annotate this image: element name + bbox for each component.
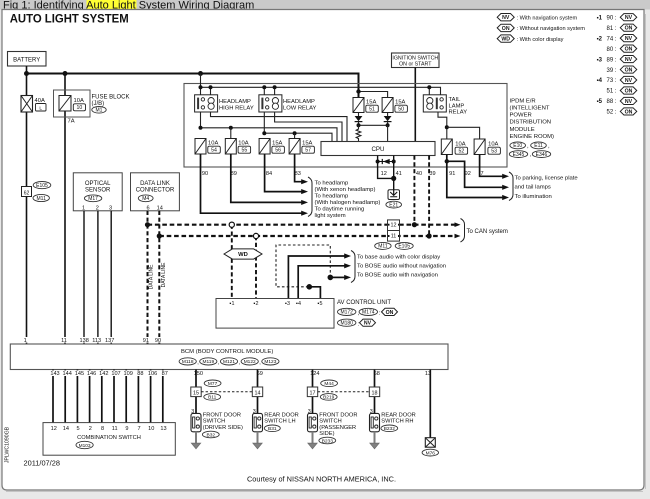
node fuse51 branch — [356, 89, 360, 93]
bracket headlamp outputs — [308, 177, 312, 217]
svg-text:IGNITION SWITCH: IGNITION SWITCH — [392, 55, 438, 61]
wire joining diode outputs — [359, 124, 388, 126]
bracket parking outputs — [509, 172, 513, 201]
battery B+ box — [8, 52, 47, 67]
svg-text:(DRIVER SIDE): (DRIVER SIDE) — [203, 425, 243, 431]
svg-text:▪2: ▪2 — [254, 301, 259, 307]
connector M174 oval — [359, 308, 377, 315]
BCM box — [10, 344, 448, 370]
svg-text:2: 2 — [96, 205, 99, 211]
hexagon ON — [382, 308, 398, 315]
fuse 15A 51 — [353, 98, 364, 113]
svg-text:62: 62 — [24, 190, 30, 196]
svg-text:TAIL: TAIL — [449, 97, 462, 103]
legend NV — [497, 14, 514, 21]
node pin91/92 split — [445, 159, 449, 163]
svg-text:10A: 10A — [238, 141, 248, 147]
wire fuse53 pin7 to parking lamps — [480, 155, 504, 177]
optical sensor box M17 — [73, 173, 122, 211]
relay headlamp high — [195, 95, 218, 112]
fuse 10A 52 — [441, 139, 452, 155]
svg-text:14: 14 — [157, 205, 163, 211]
svg-text:106: 106 — [148, 371, 157, 377]
svg-text:: Without navigation system: : Without navigation system — [517, 26, 586, 32]
connector M119 oval — [200, 358, 217, 365]
svg-text:LOW RELAY: LOW RELAY — [283, 106, 317, 112]
svg-text:SWITCH RH: SWITCH RH — [381, 419, 413, 425]
svg-text:143: 143 — [50, 371, 59, 377]
svg-text:B31: B31 — [268, 426, 277, 432]
svg-text:DATA LINK: DATA LINK — [140, 181, 170, 187]
svg-text:LAMP: LAMP — [449, 103, 465, 109]
wire CAN-L DLC pin14 down to BCM 90 (data line) — [158, 211, 160, 344]
fuse 15A 50 — [382, 98, 393, 113]
svg-text:18: 18 — [372, 390, 378, 396]
svg-text:15A: 15A — [366, 100, 376, 106]
connector E345 oval — [509, 151, 527, 158]
ignition switch box — [392, 53, 440, 68]
pin 68 — [373, 370, 381, 376]
svg-text:M77: M77 — [208, 381, 218, 387]
wire WD branch 1 — [231, 225, 233, 299]
wire CPU pin 39 CAN — [428, 156, 430, 237]
wire BCM to front door switch driver — [195, 370, 197, 414]
connector M76 symbol — [425, 438, 435, 448]
svg-text:56: 56 — [275, 148, 281, 154]
svg-text:FRONT DOOR: FRONT DOOR — [319, 413, 357, 419]
svg-text:M44: M44 — [324, 381, 334, 387]
svg-text:ON: ON — [386, 310, 394, 316]
dashed routing guide — [276, 245, 330, 287]
svg-text:ON: ON — [625, 47, 633, 53]
svg-text:REAR DOOR: REAR DOOR — [264, 413, 298, 419]
svg-text:To daytime running: To daytime running — [315, 207, 365, 213]
node CAN-H at DLC — [145, 222, 150, 227]
connector M1 oval — [92, 107, 106, 114]
svg-text:10A: 10A — [74, 98, 84, 104]
svg-text:146: 146 — [87, 371, 96, 377]
fuse 10A 53 — [474, 139, 485, 155]
svg-text:39: 39 — [429, 171, 435, 177]
fuse block J/B outline M1 — [54, 90, 91, 117]
CPU box — [321, 142, 435, 156]
svg-text:RELAY: RELAY — [449, 110, 468, 116]
svg-text:E105: E105 — [36, 183, 48, 189]
node CAN-L at DLC — [157, 233, 162, 238]
svg-text:To headlamp: To headlamp — [315, 194, 349, 200]
svg-text:13: 13 — [160, 426, 166, 432]
ground rear door switch RH — [374, 432, 376, 444]
svg-text:15A: 15A — [302, 141, 312, 147]
svg-text:81 :: 81 : — [606, 26, 616, 32]
svg-text:8: 8 — [101, 426, 104, 432]
wire BCM to rear door switch RH — [374, 370, 376, 414]
svg-text:113: 113 — [92, 338, 101, 344]
svg-text:10A: 10A — [455, 142, 465, 148]
wire low relay coil out — [275, 112, 342, 142]
connector B232 oval — [381, 425, 398, 432]
svg-text:11: 11 — [112, 426, 118, 432]
WD hexagon — [224, 249, 262, 259]
wire ignition to CPU — [414, 68, 416, 142]
wire CPU pin 40 CAN — [413, 156, 415, 225]
pin 143 — [49, 370, 60, 376]
wire battery down to BCM pin 1 — [26, 74, 28, 345]
wire to BOSE with nav — [330, 276, 345, 278]
svg-text:DISTRIBUTION: DISTRIBUTION — [510, 120, 552, 126]
wire AV pin5 elbow — [309, 287, 320, 299]
svg-text:3: 3 — [109, 205, 112, 211]
connector M122 oval — [241, 358, 258, 365]
pin 106 — [147, 370, 158, 376]
connector E21 oval — [386, 201, 402, 208]
svg-text:WD: WD — [501, 37, 510, 43]
wire CAN-L horizontal bus — [159, 235, 454, 237]
svg-text:ENGINE ROOM): ENGINE ROOM) — [510, 134, 555, 140]
svg-text:FRONT DOOR: FRONT DOOR — [203, 413, 241, 419]
svg-text:OPTICAL: OPTICAL — [85, 181, 111, 187]
svg-text:M11: M11 — [37, 196, 47, 202]
fusible link L symbol — [36, 104, 47, 112]
node fuse57 tap — [293, 131, 297, 135]
svg-text:2011/07/28: 2011/07/28 — [24, 459, 60, 468]
svg-text:To parking, license plate: To parking, license plate — [515, 175, 579, 181]
svg-text:12: 12 — [381, 171, 387, 177]
svg-text:and tail lamps: and tail lamps — [515, 185, 551, 191]
connector B31 oval — [264, 425, 280, 432]
pin 137 — [104, 337, 115, 343]
svg-text:52 :: 52 : — [606, 110, 616, 116]
svg-text:88 :: 88 : — [606, 99, 616, 105]
svg-text:M76: M76 — [426, 450, 436, 456]
svg-text:ON: ON — [502, 26, 510, 32]
connector M44 oval — [321, 380, 338, 387]
svg-text:WD: WD — [238, 252, 248, 258]
svg-text:7A: 7A — [68, 119, 75, 125]
resistor to CPU — [356, 125, 361, 141]
node CAN-H CPU40 — [412, 222, 417, 227]
svg-text:To CAN system: To CAN system — [467, 229, 508, 235]
pin 146 — [86, 370, 97, 376]
pin 138 — [79, 337, 90, 343]
svg-text:B233: B233 — [322, 438, 334, 444]
svg-text:HEADLAMP: HEADLAMP — [219, 99, 251, 105]
connector box 15 — [191, 387, 201, 397]
svg-text:12: 12 — [51, 426, 57, 432]
IPDM E/R outline box — [184, 84, 507, 168]
node BOSE nav junction — [328, 275, 334, 281]
svg-text:2: 2 — [89, 426, 92, 432]
svg-text:41: 41 — [396, 171, 402, 177]
svg-text:15: 15 — [193, 390, 199, 396]
svg-text:9: 9 — [125, 426, 128, 432]
connector M118 oval — [179, 358, 196, 365]
connector M11 oval — [33, 194, 49, 201]
node relay bus junction — [198, 71, 203, 76]
svg-text:M180: M180 — [340, 321, 353, 327]
svg-text:ON or START: ON or START — [399, 62, 432, 68]
hexagon NV — [360, 319, 376, 326]
svg-text:15A: 15A — [272, 141, 282, 147]
fuse 10A 55 — [225, 139, 236, 155]
svg-text:84: 84 — [266, 171, 272, 177]
svg-text:SWITCH: SWITCH — [319, 419, 341, 425]
svg-text:55: 55 — [241, 148, 247, 154]
svg-text:B232: B232 — [384, 426, 396, 432]
connector M123 oval — [262, 358, 279, 365]
connector B32 oval — [202, 431, 219, 438]
wire high relay contact out — [201, 112, 338, 142]
svg-text:92: 92 — [465, 171, 471, 177]
pin 113 — [91, 337, 102, 343]
svg-text:DATA LINE: DATA LINE — [161, 262, 167, 287]
svg-text:(With xenon headlamp): (With xenon headlamp) — [315, 187, 376, 193]
svg-text:SIDE): SIDE) — [319, 431, 334, 437]
svg-text:▪3: ▪3 — [285, 301, 290, 307]
svg-text:NV: NV — [625, 15, 633, 21]
svg-text:M121: M121 — [223, 359, 235, 365]
svg-text:7: 7 — [480, 171, 483, 177]
pin 150 — [193, 370, 204, 376]
svg-text:10: 10 — [148, 426, 154, 432]
svg-text:ON: ON — [625, 109, 633, 115]
connector 62 box on battery wire — [22, 187, 32, 197]
connector B219 oval — [320, 394, 337, 401]
fuse 15A 57 — [289, 139, 300, 155]
svg-text:B11: B11 — [208, 395, 217, 401]
wire CPU pin 41 — [393, 156, 395, 190]
fusible link 40A — [21, 96, 33, 113]
svg-text:5: 5 — [77, 426, 80, 432]
svg-text:HEADLAMP: HEADLAMP — [283, 99, 315, 105]
svg-text:90: 90 — [202, 171, 208, 177]
svg-text:E10: E10 — [513, 143, 522, 149]
svg-text:To BOSE audio without navigati: To BOSE audio without navigation — [357, 263, 446, 269]
pin 90 — [154, 337, 162, 343]
wire WD branch 2 — [255, 236, 257, 299]
pin 144 — [62, 370, 73, 376]
svg-text:M118: M118 — [182, 359, 194, 365]
wire pin 91 illumination — [447, 161, 504, 197]
connector M172 oval — [338, 308, 356, 315]
svg-text:B32: B32 — [207, 432, 216, 438]
svg-text:E346: E346 — [536, 152, 548, 158]
svg-text:80 :: 80 : — [606, 47, 616, 53]
svg-text:12: 12 — [391, 223, 397, 229]
connector M180 oval — [338, 319, 356, 326]
svg-text:E11: E11 — [534, 143, 543, 149]
wire CPU pin 12 — [378, 156, 394, 179]
svg-text:To illumination: To illumination — [515, 194, 552, 200]
wire pin 92 tail lamps — [447, 155, 504, 188]
svg-text:57: 57 — [305, 148, 311, 154]
svg-text:(INTELLIGENT: (INTELLIGENT — [510, 106, 550, 112]
svg-text:AUTO LIGHT SYSTEM: AUTO LIGHT SYSTEM — [10, 12, 129, 26]
svg-text:: With navigation system: : With navigation system — [517, 16, 578, 22]
node CAN-L CPU39 — [427, 233, 432, 238]
svg-text:M11: M11 — [378, 244, 388, 250]
pin 91 — [142, 337, 150, 343]
diode between pins 12 and 41 — [381, 159, 383, 164]
highlight Auto Light — [87, 0, 137, 10]
wire battery to bus — [26, 66, 28, 74]
svg-text:M119: M119 — [202, 359, 214, 365]
connector B11 oval — [204, 394, 221, 401]
svg-text:52: 52 — [458, 149, 464, 155]
svg-text:NV: NV — [502, 15, 510, 21]
svg-text:90: 90 — [155, 338, 161, 344]
svg-text:SWITCH: SWITCH — [203, 419, 225, 425]
node battery junction — [24, 71, 29, 76]
IPDM internal supply bus — [201, 74, 441, 96]
legend ON — [497, 24, 514, 31]
svg-text:74 :: 74 : — [606, 36, 616, 42]
node bus 210.5 — [209, 85, 213, 89]
fuse 10A #10 — [59, 96, 71, 112]
svg-text:COMBINATION SWITCH: COMBINATION SWITCH — [77, 435, 141, 441]
svg-text:Courtesy of NISSAN NORTH AMERI: Courtesy of NISSAN NORTH AMERICA, INC. — [247, 475, 396, 484]
svg-text:E105: E105 — [398, 244, 410, 250]
wire BCM to front door switch passenger — [312, 370, 314, 414]
svg-text:E345: E345 — [513, 152, 525, 158]
svg-text:DATA LINE: DATA LINE — [149, 264, 155, 289]
node bus 274.6 — [273, 85, 277, 89]
svg-text:CONNECTOR: CONNECTOR — [136, 188, 175, 194]
svg-text:40: 40 — [416, 171, 422, 177]
relay tail lamp — [423, 95, 446, 112]
svg-text:: With color display: : With color display — [517, 37, 564, 43]
node fuse10 junction — [63, 71, 68, 76]
svg-text:NV: NV — [364, 321, 372, 327]
diode under fuse 50 — [387, 113, 389, 117]
svg-text:IPDM E/R: IPDM E/R — [510, 98, 536, 104]
bracket CAN — [461, 219, 465, 243]
connector E10 oval — [510, 142, 526, 149]
svg-text:HIGH RELAY: HIGH RELAY — [219, 106, 254, 112]
svg-text:91: 91 — [143, 338, 149, 344]
svg-text:10A: 10A — [488, 142, 498, 148]
wire AV pin3 to base audio — [288, 256, 345, 299]
svg-text:137: 137 — [105, 338, 114, 344]
wire diode50 to CPU — [387, 125, 389, 141]
bracket audio — [351, 251, 355, 283]
dashed link 15-14 — [201, 391, 252, 393]
svg-text:10A: 10A — [208, 141, 218, 147]
svg-text:83: 83 — [295, 171, 301, 177]
svg-text:17: 17 — [310, 390, 316, 396]
wires headlamp outputs — [295, 154, 303, 182]
connector box 18 — [369, 387, 379, 397]
svg-text:ON: ON — [625, 67, 633, 73]
connector B233 oval — [319, 437, 336, 444]
svg-text:6: 6 — [147, 205, 150, 211]
svg-text:89: 89 — [231, 171, 237, 177]
wire fuse block out to BCM pin 11 — [64, 111, 66, 344]
svg-text:53: 53 — [491, 149, 497, 155]
svg-text:BCM (BODY CONTROL MODULE): BCM (BODY CONTROL MODULE) — [181, 349, 273, 355]
node CAN-L WD branch (open) — [253, 233, 258, 238]
svg-text:SENSOR: SENSOR — [85, 188, 111, 194]
svg-text:109: 109 — [124, 371, 133, 377]
svg-text:14: 14 — [63, 426, 69, 432]
svg-text:54: 54 — [211, 148, 217, 154]
svg-text:NV: NV — [625, 36, 633, 42]
wire BCM pin13 to M76 — [429, 370, 431, 438]
internal bus stubs to relay pins — [211, 87, 430, 95]
svg-text:89 :: 89 : — [606, 57, 616, 63]
svg-text:M4: M4 — [142, 196, 149, 202]
fuse 10A 54 — [195, 139, 206, 155]
svg-text:▪1: ▪1 — [230, 301, 235, 307]
connector box 17 — [307, 387, 317, 397]
svg-text:M172: M172 — [340, 310, 353, 316]
svg-text:138: 138 — [80, 338, 89, 344]
svg-text:SWITCH LH: SWITCH LH — [264, 419, 295, 425]
svg-text:1: 1 — [82, 205, 85, 211]
node bus 200.5 — [199, 85, 203, 89]
svg-text:88: 88 — [137, 371, 143, 377]
node bus 429.3 — [427, 85, 431, 89]
svg-text:10: 10 — [77, 105, 83, 111]
svg-text:light system: light system — [315, 213, 346, 219]
connector E105 oval — [395, 242, 413, 249]
svg-text:BATTERY: BATTERY — [13, 57, 40, 63]
svg-text:(With halogen headlamp): (With halogen headlamp) — [315, 200, 381, 206]
svg-text:73 :: 73 : — [606, 78, 616, 84]
legend WD — [497, 35, 514, 42]
svg-text:7: 7 — [138, 426, 141, 432]
pin 69 — [256, 370, 264, 376]
svg-text:To base audio with color displ: To base audio with color display — [357, 254, 440, 260]
wire CAN-H horizontal bus — [148, 224, 455, 226]
svg-text:M103: M103 — [79, 443, 91, 449]
svg-text:51: 51 — [369, 107, 375, 113]
svg-text:90 :: 90 : — [606, 15, 616, 21]
svg-text:87: 87 — [162, 371, 168, 377]
svg-text:To BOSE audio with navigation: To BOSE audio with navigation — [357, 273, 438, 279]
svg-text:ON: ON — [625, 26, 633, 32]
wire CAN-H DLC pin6 down to BCM 91 (data line) — [147, 211, 149, 344]
data link connector box M4 — [131, 173, 180, 211]
svg-text:M17: M17 — [88, 196, 98, 202]
wire AV pin4 to BOSE wo nav — [298, 266, 345, 299]
node bus 264.3 — [262, 85, 266, 89]
pin 88 — [136, 370, 144, 376]
wire low relay contact out — [264, 112, 332, 142]
wires optical sensor to BCM 138 113 137 — [83, 211, 85, 344]
wire BCM to rear door switch LH — [257, 370, 259, 414]
svg-text:(PASSENGER: (PASSENGER — [319, 425, 356, 431]
pin 142 — [98, 370, 109, 376]
connector M11 oval — [375, 242, 391, 249]
svg-text:107: 107 — [111, 371, 120, 377]
svg-text:M123: M123 — [264, 359, 276, 365]
node pins 12/41 join — [391, 176, 396, 181]
connector M121 oval — [220, 358, 237, 365]
svg-text:▪5: ▪5 — [597, 99, 603, 105]
svg-text:11: 11 — [61, 338, 67, 344]
connector E11 oval — [531, 142, 547, 149]
AV control unit box — [216, 299, 334, 329]
dashed link 17-18 — [318, 391, 370, 393]
svg-text:L: L — [39, 105, 42, 111]
svg-text:124: 124 — [310, 371, 319, 377]
svg-text:M122: M122 — [244, 359, 256, 365]
svg-text:51 :: 51 : — [606, 89, 616, 95]
svg-text:14: 14 — [255, 390, 261, 396]
connector E21 symbol — [388, 190, 400, 200]
svg-text:FUSE BLOCK: FUSE BLOCK — [92, 95, 130, 101]
